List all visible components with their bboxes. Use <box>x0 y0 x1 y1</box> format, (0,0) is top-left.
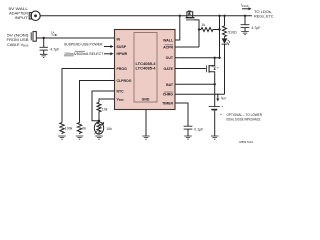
arrow current mark on usb wire <box>52 34 58 36</box>
svg-text:10k: 10k <box>106 127 112 131</box>
wire battery drop <box>214 84 216 106</box>
usb connector <box>31 32 36 42</box>
svg-text:SUSP: SUSP <box>117 45 127 49</box>
capacitor 4.7uF output <box>241 16 250 32</box>
wire IN <box>36 37 114 39</box>
resistor 510 <box>223 16 227 37</box>
svg-text:PROG: PROG <box>117 67 128 71</box>
svg-text:4.7µF: 4.7µF <box>50 47 59 51</box>
resistor 2k <box>77 123 81 135</box>
node 1k to OUT riser <box>218 28 220 30</box>
svg-text:100k: 100k <box>65 127 73 131</box>
svg-text:CHRG: CHRG <box>163 93 174 97</box>
resistor 100k <box>60 123 64 135</box>
capacitor 0.1uF <box>184 126 193 136</box>
svg-text:NTC: NTC <box>117 89 125 93</box>
svg-text:ACPR: ACPR <box>163 45 173 49</box>
ground input cap <box>40 54 48 57</box>
wire BAT <box>175 83 215 85</box>
capacitor 4.7uF input <box>40 38 48 54</box>
svg-text:5V (NOM): 5V (NOM) <box>7 34 29 38</box>
wire WALL riser <box>175 16 180 40</box>
battery single cell <box>209 107 220 136</box>
ground 2k <box>76 136 84 139</box>
svg-text:ILOAD: ILOAD <box>241 3 249 8</box>
svg-text:BAT: BAT <box>166 83 174 87</box>
ground output cap <box>241 32 249 35</box>
ground 100k <box>58 136 66 139</box>
svg-text:+: + <box>221 105 224 109</box>
wire OUT <box>175 57 220 59</box>
arrow I_BAT <box>216 94 219 102</box>
IC U1 LTC4085 <box>115 30 176 110</box>
node NTC junction <box>98 120 100 122</box>
node gate MP1 / 1k junction <box>198 28 200 30</box>
svg-text:REGs, ETC: REGs, ETC <box>254 15 274 19</box>
svg-text:ADAPTER: ADAPTER <box>9 12 28 16</box>
arrow HPWR input <box>104 52 114 55</box>
ground IC <box>142 136 150 139</box>
node WALL tap <box>179 15 181 17</box>
svg-text:5V WALL: 5V WALL <box>9 7 29 11</box>
wire wall rail <box>40 15 252 17</box>
node IN cap tap <box>43 37 45 39</box>
wire OUT riser <box>219 16 221 58</box>
svg-text:OPTIONAL – TO LOWER: OPTIONAL – TO LOWER <box>227 113 263 117</box>
ground thermistor <box>95 136 103 139</box>
svg-text:*: * <box>217 66 219 71</box>
wire ACPR <box>175 46 199 48</box>
svg-text:1k: 1k <box>202 23 206 27</box>
arrow I_LOAD <box>242 7 252 10</box>
node OUT cap tap <box>244 15 246 17</box>
svg-text:SUSPEND USB POWER: SUSPEND USB POWER <box>64 43 103 47</box>
svg-text:WALL: WALL <box>163 38 174 42</box>
svg-text:*: * <box>220 113 222 118</box>
node 510 tap <box>223 15 225 17</box>
resistor 10k series <box>97 102 101 121</box>
svg-text:2k: 2k <box>82 127 86 131</box>
IC pin labels <box>117 37 174 105</box>
svg-text:INPUT: INPUT <box>15 16 29 20</box>
svg-text:HPWR: HPWR <box>117 52 128 56</box>
arrow SUSP input <box>104 45 114 48</box>
svg-text:LTC4085-4: LTC4085-4 <box>136 67 156 71</box>
svg-text:1A: 1A <box>51 30 55 34</box>
svg-text:TIMER: TIMER <box>162 101 173 105</box>
ground timer cap <box>184 136 192 139</box>
resistor 1k <box>199 28 220 32</box>
svg-text:TO LDOs,: TO LDOs, <box>254 10 272 14</box>
svg-text:CABLE VBUS: CABLE VBUS <box>7 43 29 48</box>
transistor MP1 channel and gate <box>186 18 199 47</box>
svg-text:GND: GND <box>142 98 150 102</box>
wire TIMER <box>175 103 188 126</box>
LED D1 <box>222 37 231 94</box>
svg-text:IBAT: IBAT <box>221 96 227 101</box>
wire CLPROG <box>80 81 115 123</box>
svg-text:40853 TA01: 40853 TA01 <box>239 140 253 144</box>
wall adapter jack <box>29 11 40 20</box>
transistor MP2 optional ideal diode <box>207 58 216 85</box>
transistor MP1 body diode <box>187 11 193 18</box>
svg-text:IDEAL DIODE IMPEDANCE: IDEAL DIODE IMPEDANCE <box>227 118 261 122</box>
svg-text:OUT: OUT <box>166 56 174 60</box>
svg-text:LTC4085-3: LTC4085-3 <box>136 62 156 66</box>
svg-text:IN: IN <box>117 37 121 41</box>
wire NTC <box>92 91 115 121</box>
thermistor 10k NTC <box>94 122 104 134</box>
svg-text:4.7µF: 4.7µF <box>251 26 260 30</box>
svg-text:100mA/500mA SELECT: 100mA/500mA SELECT <box>64 52 104 56</box>
svg-text:510Ω: 510Ω <box>228 31 237 35</box>
svg-text:0.1µF: 0.1µF <box>194 127 203 131</box>
svg-text:GATE: GATE <box>164 67 174 71</box>
wire CHRG <box>175 93 225 95</box>
svg-text:CLPROG: CLPROG <box>117 79 132 83</box>
wire GND pin <box>145 110 147 137</box>
wire GATE <box>175 68 206 70</box>
svg-text:10k: 10k <box>102 108 108 112</box>
svg-text:FROM USB: FROM USB <box>7 38 30 42</box>
wire VNTC <box>99 99 115 102</box>
ground battery <box>211 136 219 139</box>
wire PROG <box>62 69 115 123</box>
